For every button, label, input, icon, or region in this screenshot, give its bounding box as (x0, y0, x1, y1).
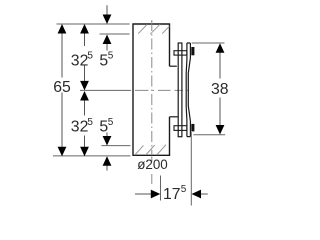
arrowhead 5.5 lower up (103, 156, 112, 166)
extension line depth left (160, 176, 162, 201)
cover plate side view outline (133, 24, 170, 155)
dimension line 17.5 (135, 193, 208, 195)
hatch bottom band (135, 145, 166, 155)
arrowhead 65 top (58, 24, 67, 34)
extension line bottom edge (53, 155, 130, 157)
arrowhead middle down (80, 81, 89, 91)
arrowhead 5.5 upper up (103, 35, 112, 45)
dimension line 32.5 pair (84, 33, 86, 147)
extension line plate back (100, 33, 130, 35)
bottom clamp plate (174, 126, 187, 131)
frame rail rear bar (186, 43, 190, 137)
dimension line 65 (61, 33, 63, 147)
vertical centerline (151, 20, 153, 155)
svg-text:5: 5 (108, 117, 114, 128)
svg-text:5: 5 (181, 184, 187, 195)
extension line top edge (57, 23, 130, 25)
svg-text:38: 38 (211, 81, 229, 98)
extension line depth right (190, 132, 192, 206)
horizontal centerline (135, 89, 189, 91)
extension line middle (80, 89, 131, 91)
vertical centerline lower part (151, 156, 153, 184)
top clamp nut (191, 47, 194, 55)
extension line rail bottom (194, 134, 226, 136)
arrowhead 32.5 top (80, 24, 89, 34)
svg-text:ø200: ø200 (137, 157, 168, 172)
arrowhead 38 bottom (216, 125, 225, 135)
extension line plate front lower (101, 145, 130, 147)
extension line rail top (192, 42, 225, 44)
svg-text:32: 32 (71, 118, 89, 135)
arrowhead 17.5 left (151, 190, 161, 199)
svg-text:5: 5 (87, 117, 93, 128)
arrowhead 17.5 right (192, 190, 202, 199)
arrowhead 5.5 lower down (103, 136, 112, 146)
frame rail front bar (178, 43, 182, 137)
arrowhead 32.5 bottom (80, 147, 89, 157)
bottom clamp nut (191, 124, 194, 131)
svg-text:17: 17 (163, 186, 181, 203)
housing step bottom (170, 116, 178, 118)
arrowhead middle up (80, 91, 89, 101)
hatch top band (138, 24, 169, 34)
dimension line 38 (219, 52, 221, 127)
svg-text:32: 32 (71, 52, 89, 69)
svg-text:5: 5 (87, 50, 93, 61)
housing step top (170, 65, 177, 67)
dimension line 5.5 pair (106, 5, 108, 170)
svg-text:5: 5 (108, 50, 114, 61)
arrowhead 65 bottom (58, 147, 67, 157)
top clamp plate (174, 51, 187, 55)
arrowhead 38 top (216, 43, 225, 53)
svg-text:65: 65 (53, 79, 71, 96)
arrowhead 5.5 upper down (103, 15, 112, 25)
